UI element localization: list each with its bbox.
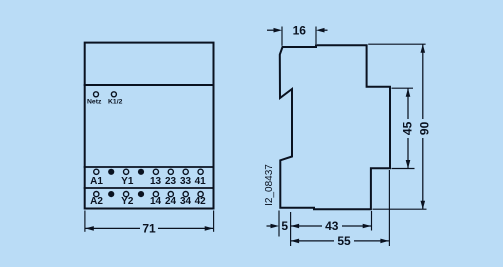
indicator K1/2 circle: [111, 92, 116, 97]
dimension 71 line: [85, 227, 213, 229]
terminal strip middle line: [84, 187, 215, 189]
dimension 55 line: [291, 240, 389, 242]
svg-text:A2: A2: [90, 196, 103, 207]
svg-text:34: 34: [180, 196, 192, 207]
terminal strip top line: [84, 166, 215, 168]
svg-text:33: 33: [180, 176, 192, 187]
svg-text:5: 5: [281, 219, 288, 233]
svg-text:41: 41: [195, 176, 207, 187]
svg-text:I2_08437: I2_08437: [264, 164, 275, 206]
svg-text:13: 13: [150, 176, 162, 187]
svg-text:45: 45: [401, 121, 415, 135]
indicator Netz circle: [94, 92, 99, 97]
terminal row 2 circles: [94, 191, 203, 197]
dimension 55 arrowheads: [291, 239, 300, 244]
dimension 43 line: [291, 225, 372, 227]
dimension 71 extension lines: [85, 211, 214, 232]
dimension 71 arrowheads: [85, 226, 94, 231]
dimension 43 arrowheads: [291, 224, 300, 229]
terminal row 1 circles: [94, 169, 203, 175]
svg-text:K1/2: K1/2: [108, 99, 123, 106]
svg-text:55: 55: [337, 234, 351, 248]
svg-text:43: 43: [325, 219, 339, 233]
terminal row 2 labels: [90, 196, 206, 207]
svg-text:A1: A1: [90, 176, 103, 187]
svg-text:23: 23: [165, 176, 177, 187]
svg-text:14: 14: [150, 196, 162, 207]
svg-text:Y1: Y1: [121, 176, 134, 187]
dimension 45 line: [407, 89, 409, 169]
dimension 16 arrows: [267, 29, 328, 31]
terminal row 1 labels: [90, 176, 206, 187]
bottom extension lines: [279, 170, 389, 246]
svg-text:42: 42: [195, 196, 207, 207]
side profile outline: [280, 45, 390, 209]
dimension 90 arrowheads: [421, 44, 426, 53]
svg-text:24: 24: [165, 196, 177, 207]
svg-text:16: 16: [293, 23, 307, 37]
svg-text:Netz: Netz: [87, 99, 102, 106]
dimension 45 arrowheads: [406, 88, 411, 97]
dimension 90 line: [422, 44, 424, 209]
dimension 16 extension lines: [282, 27, 316, 46]
svg-text:71: 71: [142, 222, 156, 236]
dimension 5 arrow: [267, 225, 273, 227]
front view outer box: [85, 43, 214, 209]
front view upper panel line: [84, 84, 215, 86]
svg-text:90: 90: [417, 121, 431, 135]
right side extension lines: [368, 44, 426, 209]
svg-text:Y2: Y2: [121, 196, 134, 207]
